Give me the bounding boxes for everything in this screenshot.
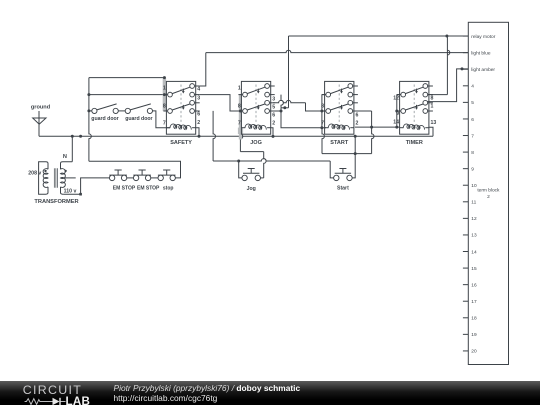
pushbutton EM STOP 2 bbox=[133, 170, 160, 191]
svg-text:12: 12 bbox=[393, 96, 399, 102]
svg-text:6: 6 bbox=[197, 112, 200, 118]
switch: guard door 2 bbox=[125, 104, 152, 122]
svg-text:JOG: JOG bbox=[250, 140, 262, 146]
wire: N from ground bus to transformer secondary bbox=[71, 136, 73, 161]
svg-text:10: 10 bbox=[471, 183, 477, 189]
svg-text:8: 8 bbox=[163, 104, 166, 110]
svg-text:8: 8 bbox=[321, 104, 324, 110]
wire: start button bar bbox=[322, 153, 372, 155]
svg-text:2: 2 bbox=[197, 120, 200, 126]
wire: guard door chain to SAFETY coil pin 7 bbox=[152, 111, 170, 128]
wire: wire2 to Jog button left bbox=[239, 161, 242, 178]
svg-text:2: 2 bbox=[356, 120, 359, 126]
svg-text:EM STOP: EM STOP bbox=[113, 185, 136, 191]
wire: feed to SAFETY upper common bbox=[89, 94, 167, 96]
wire: START pin 6 down bbox=[357, 110, 371, 112]
relay K4 TIMER bbox=[393, 81, 436, 145]
svg-text:2: 2 bbox=[487, 194, 490, 200]
wire: button chain links bbox=[127, 177, 134, 179]
selected wire highlight (SAFETY relay left wire) bbox=[164, 78, 243, 140]
wire: wire2 to Start button left bbox=[330, 161, 334, 178]
wire: transformer secondary to EM STOP chain bbox=[64, 178, 110, 194]
svg-text:13: 13 bbox=[431, 120, 437, 126]
wire: JOG commons chain to Jog button right bbox=[240, 95, 242, 152]
selected wire highlight (JOG relay left wire) bbox=[239, 94, 242, 139]
relay K1 SAFETY bbox=[163, 81, 200, 145]
svg-text:5: 5 bbox=[471, 100, 474, 106]
svg-text:Jog: Jog bbox=[247, 186, 256, 192]
svg-text:18: 18 bbox=[471, 316, 477, 322]
switch: guard door 1 bbox=[91, 104, 118, 122]
svg-text:EM STOP: EM STOP bbox=[137, 185, 160, 191]
relay K2 JOG bbox=[238, 81, 275, 145]
svg-text:light blue: light blue bbox=[471, 50, 491, 56]
svg-text:ground: ground bbox=[31, 105, 51, 111]
svg-text:guard door: guard door bbox=[125, 116, 152, 122]
wire: TIMER pin 8 up to relay motor line bbox=[427, 94, 447, 96]
svg-text:light amber: light amber bbox=[471, 67, 495, 73]
wire: light blue line from SAFETY pin 4 bbox=[206, 50, 469, 52]
wire: JOG pin 6 to node bbox=[269, 110, 281, 112]
svg-text:3: 3 bbox=[272, 96, 275, 102]
svg-text:START: START bbox=[330, 140, 349, 146]
svg-text:7: 7 bbox=[471, 133, 474, 139]
wire: TIMER pin 13 to ground bus end bbox=[429, 127, 433, 136]
svg-text:LAB: LAB bbox=[66, 395, 91, 405]
wire: SAFETY pin 3 to JOG lower common bbox=[200, 95, 243, 111]
svg-text:Start: Start bbox=[337, 186, 349, 192]
svg-text:TIMER: TIMER bbox=[406, 140, 423, 146]
svg-text:SAFETY: SAFETY bbox=[170, 140, 192, 146]
terminal block TB2 bbox=[463, 22, 509, 364]
pushbutton Start bbox=[334, 169, 353, 192]
svg-text:stop: stop bbox=[163, 185, 174, 191]
svg-text:20: 20 bbox=[471, 349, 477, 355]
svg-text:6: 6 bbox=[471, 117, 474, 123]
svg-text:TRANSFORMER: TRANSFORMER bbox=[34, 199, 78, 205]
wire: relay motor line (top) bbox=[289, 35, 469, 37]
ground bbox=[31, 105, 51, 137]
svg-text:4: 4 bbox=[197, 86, 200, 92]
svg-text:110 v: 110 v bbox=[64, 188, 77, 194]
wire: SAFETY pin 4 to light blue line bbox=[200, 53, 206, 86]
wire: JOG pin 5 to START lower common bbox=[273, 100, 305, 102]
pushbutton Jog bbox=[242, 169, 261, 193]
wire: EM-stop chain bridge to riser bbox=[89, 161, 181, 178]
svg-text:1: 1 bbox=[431, 104, 434, 110]
svg-text:7: 7 bbox=[238, 121, 241, 127]
svg-text:17: 17 bbox=[471, 299, 477, 305]
svg-text:4: 4 bbox=[471, 84, 474, 90]
svg-text:6: 6 bbox=[272, 112, 275, 118]
wire: TIMER commons vertical bbox=[396, 95, 398, 128]
wire: top bus to SAFETY commons bbox=[89, 77, 164, 79]
svg-text:7: 7 bbox=[321, 121, 324, 127]
wire: relay motor line down to JOG pin3 node bbox=[288, 36, 290, 108]
wire: ground bus / wire1 bbox=[39, 135, 433, 137]
svg-text:208 v: 208 v bbox=[28, 170, 41, 176]
svg-text:1: 1 bbox=[238, 86, 241, 92]
svg-text:guard door: guard door bbox=[91, 116, 118, 122]
wire: JOG pin3 node down to START coil pin 7 bbox=[281, 108, 326, 128]
svg-text:3: 3 bbox=[197, 96, 200, 102]
svg-text:N: N bbox=[63, 154, 67, 160]
wire: TIMER pin 1 to light amber terminal bbox=[427, 69, 468, 102]
svg-text:19: 19 bbox=[471, 332, 477, 338]
CircuitLab logo bbox=[14, 381, 110, 405]
svg-text:9: 9 bbox=[471, 166, 474, 172]
wire: SAFETY pin 6 down to wire2 bbox=[213, 111, 215, 161]
svg-text:relay motor: relay motor bbox=[471, 34, 495, 40]
pushbutton EM STOP 1 bbox=[109, 170, 136, 191]
svg-text:8: 8 bbox=[471, 150, 474, 156]
transformer T1 bbox=[28, 154, 78, 205]
svg-text:15: 15 bbox=[471, 266, 477, 272]
svg-text:2: 2 bbox=[272, 120, 275, 126]
wire: left vertical (button chain riser) bbox=[89, 78, 91, 162]
wire: JOG pin 3 down bbox=[281, 95, 283, 108]
svg-text:11: 11 bbox=[471, 200, 476, 206]
wire: ground bus to Start button right bbox=[352, 136, 355, 178]
wire: START pin 2 to TIMER coil pin 14 bbox=[355, 126, 400, 128]
svg-text:12: 12 bbox=[471, 216, 477, 222]
svg-text:8: 8 bbox=[431, 96, 434, 102]
wire: START commons down to start-button bar bbox=[322, 128, 324, 154]
svg-text:6: 6 bbox=[356, 113, 359, 119]
svg-text:7: 7 bbox=[163, 121, 166, 127]
wire: SAFETY commons vertical bbox=[163, 78, 165, 111]
relay K3 START bbox=[321, 81, 358, 145]
svg-text:13: 13 bbox=[471, 233, 477, 239]
wire: guard door switch link bbox=[118, 110, 125, 112]
svg-text:8: 8 bbox=[238, 104, 241, 110]
svg-text:14: 14 bbox=[393, 120, 399, 126]
svg-text:1: 1 bbox=[163, 86, 166, 92]
svg-text:5: 5 bbox=[272, 104, 275, 110]
wire: SAFETY pin 2 to ground bus bbox=[196, 128, 199, 137]
footer bar bbox=[0, 381, 540, 405]
junction dots bbox=[445, 35, 448, 38]
svg-text:14: 14 bbox=[471, 249, 477, 255]
wire: JOG pin 2 to ground bus bbox=[271, 128, 273, 137]
wire: wire2 (jog feed bus) bbox=[213, 159, 330, 161]
svg-text:term block: term block bbox=[477, 188, 500, 194]
svg-text:16: 16 bbox=[471, 282, 477, 288]
wire: START commons vertical bbox=[321, 95, 323, 128]
pushbutton stop bbox=[158, 170, 176, 191]
